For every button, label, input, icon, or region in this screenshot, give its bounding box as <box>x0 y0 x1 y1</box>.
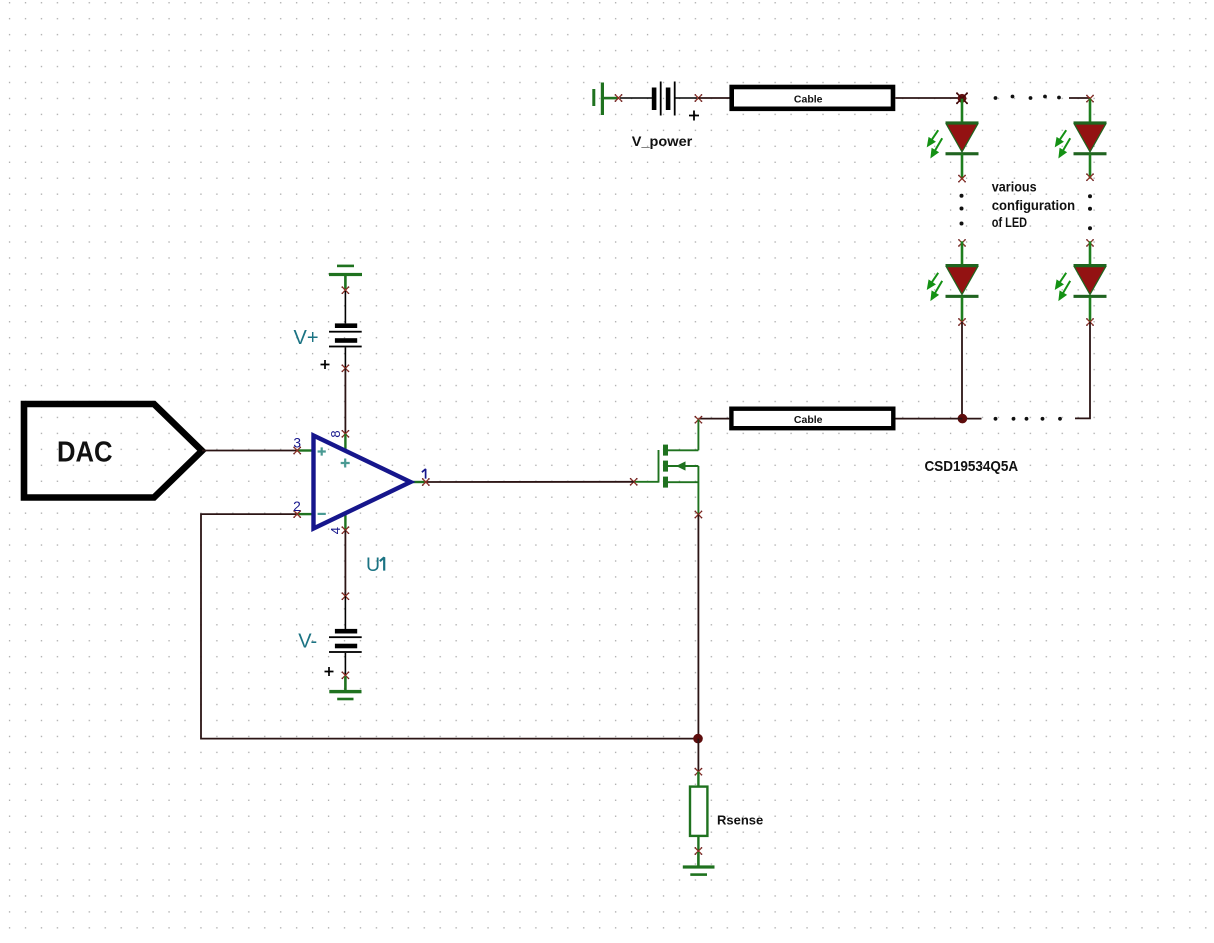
pin x D2 anode <box>958 239 966 247</box>
wire dots to right column top <box>1069 97 1090 99</box>
wire DAC to pin 3 <box>202 450 297 452</box>
svg-text:configuration: configuration <box>992 198 1075 213</box>
svg-text:U: U <box>366 554 380 576</box>
op-amp plus input mark <box>318 447 326 455</box>
wire node B to dots <box>962 418 981 420</box>
LED D3 (right top) <box>1056 99 1106 179</box>
wire V+ to pin 8 <box>344 368 346 434</box>
pin x op-amp pin 3 <box>293 447 301 455</box>
wire feedback from pin2 <box>201 514 698 739</box>
svg-text:2: 2 <box>293 499 301 514</box>
wire pin 4 to V- <box>344 530 346 596</box>
svg-text:4: 4 <box>328 527 343 534</box>
pin x D1 cathode <box>958 175 966 183</box>
ground GND1 (V_power, rotated left) <box>592 83 617 116</box>
svg-text:CSD19534Q5A: CSD19534Q5A <box>925 458 1019 475</box>
pin x Cable2 left / Q1 drain <box>694 416 702 424</box>
svg-text:Cable: Cable <box>794 414 823 426</box>
LED D1 <box>928 99 978 179</box>
pin x Rsense bottom <box>694 847 702 855</box>
svg-text:various: various <box>992 180 1037 195</box>
svg-text:V+: V+ <box>294 327 319 349</box>
pin x op-amp pin 8 <box>341 430 349 438</box>
svg-text:of LED: of LED <box>992 215 1027 230</box>
cable CABLE1 <box>732 87 893 109</box>
svg-text:Rsense: Rsense <box>717 813 763 828</box>
pin x battery V_power positive <box>694 94 702 102</box>
op-amp minus input mark <box>318 513 326 515</box>
pin x D2 cathode <box>958 318 966 326</box>
wire node C to Rsense <box>697 739 699 772</box>
label various configuration of LED <box>992 180 1075 231</box>
ground GND4 (V- bottom) <box>329 676 361 700</box>
svg-text:DAC: DAC <box>57 437 113 469</box>
pin x GND3 <box>341 286 349 294</box>
dots continuation top <box>994 95 1061 100</box>
svg-text:V-: V- <box>298 630 317 652</box>
wire Cable2 to drain <box>698 418 729 420</box>
LED D4 (right bottom) <box>1056 241 1106 321</box>
dots continuation bottom <box>994 417 1062 421</box>
op-amp plus power mark <box>341 459 350 468</box>
dots right column <box>1088 194 1092 230</box>
ground GND2 (Rsense) <box>683 852 715 876</box>
battery V+ <box>321 291 362 369</box>
pin x battery V+ positive <box>341 364 349 372</box>
pin x Q1 gate <box>630 478 638 486</box>
battery V- <box>325 596 362 676</box>
svg-text:3: 3 <box>293 435 301 450</box>
junction node C <box>693 734 703 744</box>
cable CABLE2 <box>731 409 893 429</box>
pin x right column top <box>1086 95 1094 103</box>
transistor Q1 CSD19534Q5A <box>634 420 698 515</box>
pin x battery V- top <box>341 592 349 600</box>
svg-text:V_power: V_power <box>632 133 693 149</box>
wire Cable2 to node B <box>896 418 963 420</box>
junction node A <box>958 94 967 103</box>
battery V_power <box>620 82 699 121</box>
pin number 1 <box>422 469 426 479</box>
pin x battery V- bottom <box>341 671 349 679</box>
op-amp U1 body <box>314 436 411 529</box>
wire left column bottom to node B <box>961 322 963 419</box>
wire right column bottom corner <box>1075 322 1090 418</box>
pin x Rsense top <box>694 768 702 776</box>
resistor Rsense <box>690 772 707 851</box>
junction node B <box>958 414 968 424</box>
wire battery to Cable1 <box>698 97 729 99</box>
wire Cable1 to node A <box>895 97 962 99</box>
dots left column <box>960 194 964 226</box>
wire op-amp output to gate <box>426 481 634 483</box>
svg-text:Cable: Cable <box>794 94 823 106</box>
pin x GND1 <box>615 94 623 102</box>
ground GND3 (V+ top, flipped up) <box>329 265 362 289</box>
pin x op-amp pin 4 <box>341 526 349 534</box>
pin x D3 cathode <box>1086 173 1094 181</box>
op-amp U1 pins (green stubs) <box>297 434 426 530</box>
pin x op-amp pin 2 <box>293 510 301 518</box>
svg-text:8: 8 <box>328 430 343 437</box>
pin x Q1 source <box>694 511 702 519</box>
pin x D4 anode <box>1086 239 1094 247</box>
pin x D4 cathode <box>1086 318 1094 326</box>
connector DAC <box>24 404 202 498</box>
pin x op-amp pin 1 <box>422 478 430 486</box>
LED D2 <box>928 241 978 321</box>
wire Q1 source down to node C <box>697 515 699 739</box>
